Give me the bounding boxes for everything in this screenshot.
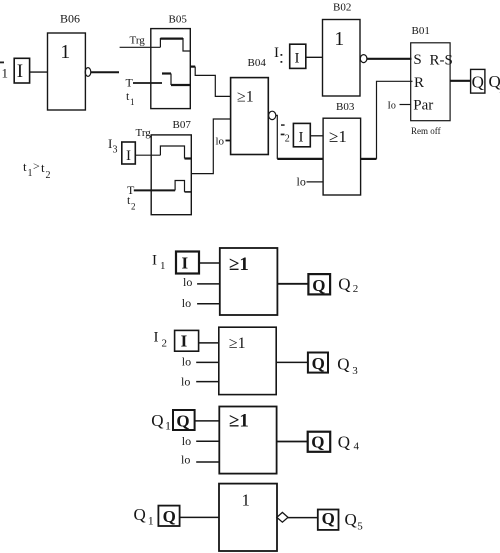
row Q5: output block Q xyxy=(318,510,339,530)
svg-text:Trg: Trg xyxy=(136,127,152,139)
B05 Trg input wire xyxy=(120,46,161,48)
row Q3: node I2 label xyxy=(154,330,168,350)
svg-text:lo: lo xyxy=(182,434,191,448)
output block Q of B01 xyxy=(471,69,485,93)
node Q1 label xyxy=(489,72,500,96)
svg-text:R: R xyxy=(414,75,424,91)
svg-text:Q: Q xyxy=(311,432,324,451)
row Q5: node Q1 label xyxy=(134,505,154,528)
svg-text:2: 2 xyxy=(285,134,290,145)
wire B03 output to B01 R input xyxy=(361,158,377,160)
row Q5: block (1) xyxy=(219,484,277,551)
wire I-box to B03 xyxy=(310,135,323,137)
B04 output bubble xyxy=(269,111,276,119)
block B07 (timer) xyxy=(151,135,191,215)
row Q3: output block Q xyxy=(308,353,328,373)
row Q4: wire input 1 xyxy=(195,420,220,422)
svg-text:1: 1 xyxy=(334,28,344,50)
svg-text:I: I xyxy=(154,330,159,346)
svg-text:Trg: Trg xyxy=(130,35,146,47)
B07 t2 label xyxy=(127,193,136,212)
svg-text:1: 1 xyxy=(130,97,135,107)
input block I of B02 xyxy=(290,44,306,68)
svg-text:Q: Q xyxy=(312,276,325,295)
svg-text:1: 1 xyxy=(148,514,154,528)
row Q4: OR gate xyxy=(219,407,276,474)
B07 T waveform xyxy=(175,181,184,192)
svg-text:lo: lo xyxy=(181,453,190,467)
wire B07 output to B04 input 2 xyxy=(191,119,230,174)
svg-text:I: I xyxy=(299,130,304,146)
row Q4: output wire xyxy=(277,441,308,443)
svg-text:B04: B04 xyxy=(248,57,267,69)
svg-text:Q: Q xyxy=(338,275,350,294)
svg-text:lo: lo xyxy=(297,175,306,189)
B05 Trg waveform xyxy=(160,39,190,51)
svg-text:Q: Q xyxy=(151,411,163,430)
row Q3: node Q3 label xyxy=(337,354,358,377)
svg-text:B03: B03 xyxy=(336,101,355,113)
row Q3: output wire xyxy=(276,361,308,363)
svg-text:I: I xyxy=(274,45,279,61)
input block I of B03 xyxy=(293,123,310,146)
svg-text:1: 1 xyxy=(2,66,9,81)
svg-text:2: 2 xyxy=(131,202,136,212)
svg-text:Q: Q xyxy=(312,354,325,373)
row Q2: wire input 1 xyxy=(199,262,220,264)
B07 Trg waveform xyxy=(160,146,184,159)
wire I-box to B06 xyxy=(30,71,48,73)
svg-text:Q: Q xyxy=(338,432,350,451)
svg-text:S: S xyxy=(413,52,421,68)
row Q5: output wire xyxy=(288,517,318,519)
svg-text:Q: Q xyxy=(163,507,176,526)
wire B01 output xyxy=(450,80,471,82)
row Q4: input block Q xyxy=(173,410,195,430)
svg-text:lo: lo xyxy=(182,296,191,310)
svg-text:lo: lo xyxy=(216,136,225,148)
svg-text:1: 1 xyxy=(160,260,166,272)
row Q5: input block Q xyxy=(158,506,179,526)
svg-text:2: 2 xyxy=(162,337,168,349)
row Q4: output block Q xyxy=(308,432,331,452)
svg-text:2: 2 xyxy=(46,170,51,181)
svg-text:Q: Q xyxy=(337,354,349,373)
B05 T waveform xyxy=(162,72,171,74)
svg-text:Q: Q xyxy=(345,510,357,529)
svg-text:Q: Q xyxy=(322,509,335,528)
wire B04 output to B03 input 2 xyxy=(276,115,278,158)
svg-text:t: t xyxy=(41,160,45,175)
svg-text:≥1: ≥1 xyxy=(229,411,249,432)
wire B05 output stair to B04 input 1 xyxy=(190,65,195,67)
svg-text:4: 4 xyxy=(354,440,360,452)
svg-text:lo: lo xyxy=(183,275,192,289)
node I2 label (faint scan marks) xyxy=(281,124,290,144)
wire B02 output to B01 S input xyxy=(367,58,412,60)
svg-text:lo: lo xyxy=(181,375,190,389)
svg-text:2: 2 xyxy=(353,283,359,295)
svg-text:Q: Q xyxy=(176,412,189,431)
row Q4: node Q1 label xyxy=(151,411,171,432)
svg-text:B07: B07 xyxy=(173,119,192,131)
svg-text:I: I xyxy=(126,148,131,164)
svg-text:I: I xyxy=(181,332,188,351)
svg-text:1: 1 xyxy=(242,491,251,510)
input block I of B06 xyxy=(14,58,29,83)
svg-text:B01: B01 xyxy=(412,25,430,37)
svg-text:B06: B06 xyxy=(60,12,80,26)
svg-text:3: 3 xyxy=(113,145,118,156)
row Q4: node Q4 label xyxy=(338,432,360,452)
block B01 (RS latch) xyxy=(411,43,450,121)
svg-text:Rem off: Rem off xyxy=(411,126,441,136)
row Q3: input block I xyxy=(175,330,199,351)
wire I-box to B07 xyxy=(135,154,160,156)
svg-text:I: I xyxy=(17,61,23,82)
svg-text:I: I xyxy=(152,252,157,268)
block B03 (OR gate) xyxy=(323,118,361,195)
svg-text:B05: B05 xyxy=(169,14,188,26)
node I1 (left edge, partially cut) xyxy=(0,62,8,81)
row Q3: wire input 1 xyxy=(199,342,219,344)
row Q2: node Q2 label xyxy=(338,275,358,295)
svg-text:1: 1 xyxy=(60,41,70,63)
svg-text:Q: Q xyxy=(134,505,146,524)
row Q2: OR gate xyxy=(220,248,278,315)
row Q5: output diamond xyxy=(277,512,288,522)
svg-text:I: I xyxy=(182,253,189,272)
row Q5: node Q5 label xyxy=(345,510,364,532)
svg-text:3: 3 xyxy=(352,365,358,377)
block B04 (OR gate) xyxy=(231,78,269,155)
row Q3: OR gate xyxy=(219,327,276,394)
svg-text:1: 1 xyxy=(28,168,33,179)
svg-text:T: T xyxy=(126,76,134,90)
svg-text:B02: B02 xyxy=(333,2,351,14)
B07 I3 label xyxy=(108,136,118,156)
row Q5: wire input xyxy=(180,516,219,518)
svg-text:I: I xyxy=(295,51,300,67)
B05 T input wire xyxy=(133,82,162,84)
row Q2: input block I xyxy=(176,252,199,274)
svg-text:≥1: ≥1 xyxy=(237,89,254,106)
wire I-box to B02 xyxy=(306,56,323,58)
block B02 (NOT gate) xyxy=(323,20,361,97)
node I1 label at B02 xyxy=(274,45,282,63)
B05 t1 label xyxy=(126,89,135,107)
svg-text:1: 1 xyxy=(165,418,171,432)
wire B06 output xyxy=(91,71,119,73)
svg-text:5: 5 xyxy=(357,521,363,533)
row Q2: node I1 label xyxy=(152,252,166,272)
block B05 (timer) xyxy=(151,29,191,109)
block B06 (NOT gate) xyxy=(48,33,86,110)
svg-text:Q: Q xyxy=(472,72,484,91)
B07 T input wire xyxy=(134,189,175,191)
input block I of B07 xyxy=(122,142,136,164)
svg-text:Io: Io xyxy=(388,101,396,112)
svg-text:t: t xyxy=(23,159,27,174)
svg-text:≥1: ≥1 xyxy=(229,335,246,352)
svg-text:≥1: ≥1 xyxy=(229,254,249,275)
svg-text:R-S: R-S xyxy=(430,52,453,68)
B02 output bubble xyxy=(360,55,367,63)
svg-text:lo: lo xyxy=(182,355,191,369)
row Q2: output wire xyxy=(277,283,308,285)
label t1>t2 xyxy=(23,159,51,181)
svg-text:≥1: ≥1 xyxy=(329,127,347,146)
row Q2: output block Q xyxy=(308,274,330,294)
svg-text:Par: Par xyxy=(413,97,433,113)
B06 output bubble xyxy=(85,68,91,77)
svg-text:>: > xyxy=(33,159,40,173)
